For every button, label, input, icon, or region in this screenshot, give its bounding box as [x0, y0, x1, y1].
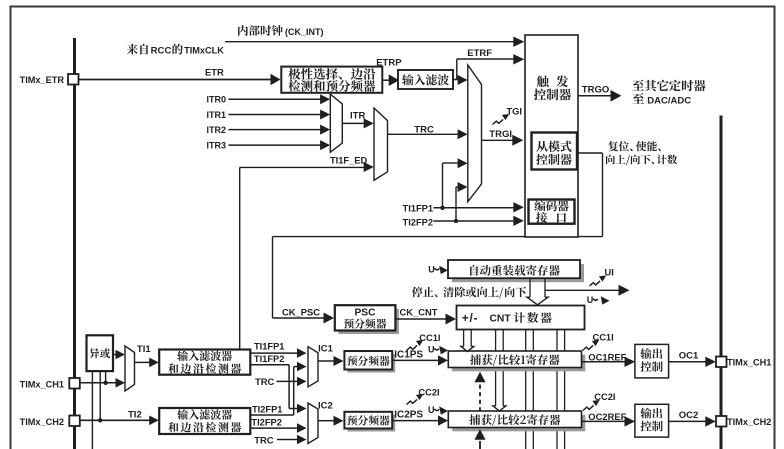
svg-text:TI2FP2: TI2FP2 — [403, 218, 433, 228]
interrupt flag TGI — [493, 114, 510, 125]
hollow update shafts from CNT down to CC registers — [463, 330, 465, 347]
wire TRGI — [482, 139, 514, 141]
left pin bus — [73, 38, 76, 449]
svg-text:CNT: CNT — [490, 314, 512, 325]
wire TI1FP2 down to IC2 — [250, 364, 289, 366]
right pin bus — [720, 116, 723, 449]
mux TI1 — [125, 346, 135, 391]
svg-text:TRGO: TRGO — [582, 85, 609, 96]
hollow arrow auto-reload to counter — [529, 278, 531, 297]
mux trigger selector TRGI — [468, 65, 482, 202]
block output control 2 输出控制 — [635, 404, 669, 437]
block trigger controller 触发控制器 — [525, 35, 578, 237]
block XOR 异或 — [87, 335, 114, 371]
hollow arrow head into CC2 — [493, 406, 506, 411]
svg-text:IC1PS: IC1PS — [394, 349, 423, 360]
svg-text:U: U — [428, 265, 435, 275]
block output control 1 输出控制 — [635, 344, 669, 378]
block prescaler channel1 预分频器 — [347, 354, 395, 373]
interrupt flag CC1I left — [407, 340, 424, 351]
block auto-reload register 自动重装载寄存器 — [452, 264, 584, 282]
svg-text:TIMx_CH2: TIMx_CH2 — [727, 417, 771, 427]
svg-text:TI1: TI1 — [137, 344, 151, 355]
svg-text:TI1FP1: TI1FP1 — [403, 204, 433, 214]
wires XOR inputs down — [91, 371, 93, 449]
svg-text:TRGI: TRGI — [489, 129, 512, 140]
block CNT counter — [457, 306, 585, 330]
pad TIMx_CH1 right — [716, 357, 727, 368]
wire IC2 out — [318, 420, 334, 422]
net CK_INT internal clock line — [225, 41, 515, 43]
label 复位、使能、向上/向下、计数 — [608, 141, 661, 151]
svg-text:ITR2: ITR2 — [206, 125, 226, 135]
svg-text:CK_PSC: CK_PSC — [282, 306, 320, 317]
wire OC2 — [669, 420, 706, 422]
svg-text:OC1REF: OC1REF — [588, 351, 626, 362]
mux ITR selector — [330, 94, 342, 152]
wire filter output into trigger mux — [453, 79, 459, 81]
svg-text:ETRP: ETRP — [376, 58, 402, 69]
mux IC2 — [308, 403, 318, 444]
svg-text:ITR3: ITR3 — [206, 140, 226, 150]
svg-text:UI: UI — [605, 268, 614, 278]
svg-text:OC1: OC1 — [679, 350, 699, 361]
wire OC1 — [669, 361, 706, 363]
svg-text:CK_CNT: CK_CNT — [400, 306, 438, 317]
interrupt flag CC1I right — [583, 340, 600, 351]
label 来自RCC的TIMxCLK — [127, 44, 148, 55]
wire TI1FP1 into IC1 — [250, 352, 297, 354]
svg-text:TI2FP2: TI2FP2 — [251, 418, 281, 428]
svg-text:TRC: TRC — [414, 124, 434, 135]
svg-text:TIMxCLK: TIMxCLK — [184, 46, 224, 56]
block capture/compare register 2 捕获/比较2寄存器 — [452, 415, 585, 432]
wire TI2 — [80, 419, 150, 421]
wire update event out right — [545, 289, 619, 291]
wire TI1FP1 stub to encoder — [434, 207, 515, 209]
label 停止、清除或向上/向下 — [412, 287, 526, 299]
solid arrow up into CC2 bottom — [479, 441, 481, 449]
svg-text:+/-: +/- — [462, 311, 478, 325]
svg-text:TRC: TRC — [254, 435, 273, 446]
svg-text:OC2REF: OC2REF — [588, 411, 626, 422]
svg-text:PSC: PSC — [355, 308, 377, 319]
wire ETR — [79, 79, 272, 81]
wire TI2FP2 branch to trigger mux — [455, 187, 457, 221]
svg-text:CC2I: CC2I — [594, 392, 615, 402]
svg-text:RCC: RCC — [151, 46, 172, 57]
block polarity selection edge detector prescaler 极性选择、边沿检测和预分频器 — [281, 67, 382, 93]
wires ITR0-ITR3 — [229, 98, 322, 100]
wire TI2FP2 into IC2 — [250, 427, 297, 429]
wire IC1PS — [392, 359, 438, 361]
block input filter 输入滤波 — [398, 70, 453, 89]
wire OC1REF — [582, 361, 626, 363]
svg-text:DAC/ADC: DAC/ADC — [647, 95, 691, 106]
wire TRC into IC2 — [277, 439, 298, 441]
block capture/compare register 1 捕获/比较1寄存器 — [452, 355, 585, 372]
svg-text:TIMx_CH2: TIMx_CH2 — [20, 417, 64, 427]
wire XOR out to TI1 mux — [113, 354, 117, 356]
wire ETRP arrow — [382, 79, 389, 81]
interrupt flag CC2I right — [583, 400, 600, 411]
svg-text:TGI: TGI — [507, 107, 523, 117]
svg-text:ETRF: ETRF — [467, 48, 492, 59]
svg-text:TI1FP1: TI1FP1 — [254, 341, 284, 351]
wire IC2PS — [392, 420, 438, 422]
svg-text:TI2: TI2 — [128, 409, 142, 420]
svg-text:ITR: ITR — [350, 111, 365, 122]
label 内部时钟 (CK_INT) — [238, 25, 283, 36]
svg-text:IC2: IC2 — [318, 401, 333, 412]
block PSC prescaler — [338, 309, 399, 334]
svg-text:TIMx_CH1: TIMx_CH1 — [727, 358, 771, 368]
pad TIMx_CH1 left — [69, 378, 80, 389]
wire ETRF: filter output up to trigger controller — [453, 79, 457, 81]
svg-text:ITR0: ITR0 — [206, 95, 226, 105]
block slave mode controller 从模式控制器 — [532, 133, 578, 170]
pad TIMx_CH2 left — [69, 416, 80, 427]
interrupt flag CC2I left — [407, 394, 424, 405]
wire TI1F_ED — [239, 167, 241, 349]
svg-text:U: U — [587, 295, 594, 305]
svg-text:U: U — [428, 405, 435, 415]
wire slave mode controller output routing down to CK_PSC — [577, 152, 603, 154]
svg-text:TIMx_CH1: TIMx_CH1 — [20, 379, 64, 389]
svg-text:CC2I: CC2I — [418, 387, 439, 397]
svg-text:CC1I: CC1I — [419, 333, 440, 343]
wire CK_CNT — [395, 318, 446, 320]
wire TRC to trigger mux — [388, 133, 458, 135]
interrupt flag UI — [590, 275, 607, 286]
svg-text:IC2PS: IC2PS — [394, 410, 423, 421]
wire TI1 — [135, 361, 150, 363]
wire TI2FP1 up to IC1 — [250, 414, 293, 416]
block input filter edge detector 1 输入滤波器和边沿检测器 — [159, 350, 250, 375]
wire TRGO — [578, 95, 611, 97]
svg-text:OC2: OC2 — [679, 410, 699, 421]
svg-text:U: U — [428, 345, 435, 355]
wire OC2REF — [582, 420, 626, 422]
wire TRC into IC1 — [277, 380, 298, 382]
pad TIMx_ETR — [68, 74, 79, 85]
svg-text:TRC: TRC — [255, 376, 274, 387]
hollow arrow head into CC1 — [461, 346, 474, 351]
pad TIMx_CH2 right — [716, 416, 727, 427]
mux IC1 — [308, 347, 318, 387]
mux TRC selector — [374, 108, 388, 180]
svg-text:TI2FP1: TI2FP1 — [252, 405, 282, 415]
block input filter edge detector 2 输入滤波器和边沿检测器 — [159, 408, 250, 434]
wire TI2FP2 stub to encoder — [434, 220, 515, 222]
svg-text:TI1FP2: TI1FP2 — [254, 354, 284, 364]
svg-text:(CK_INT): (CK_INT) — [285, 27, 324, 37]
svg-text:CC1I: CC1I — [593, 333, 614, 343]
svg-text:TIMx_ETR: TIMx_ETR — [20, 75, 65, 85]
dashed arrow CC2 to CC1 — [479, 385, 481, 411]
block encoder interface 编码器接口 — [529, 200, 575, 224]
svg-text:IC1: IC1 — [318, 343, 334, 354]
label 至其它定时器 至DAC/ADC — [632, 80, 705, 92]
wire CH1 to TI1 mux — [80, 382, 117, 384]
block prescaler channel2 预分频器 — [347, 415, 395, 432]
svg-text:TI1F_ED: TI1F_ED — [330, 155, 367, 165]
svg-text:ITR1: ITR1 — [206, 110, 226, 120]
wire TI1FP1 branch to trigger mux — [442, 163, 444, 208]
wire ITR — [342, 122, 364, 124]
svg-text:ETR: ETR — [205, 67, 224, 78]
wire IC1 out — [318, 360, 334, 362]
